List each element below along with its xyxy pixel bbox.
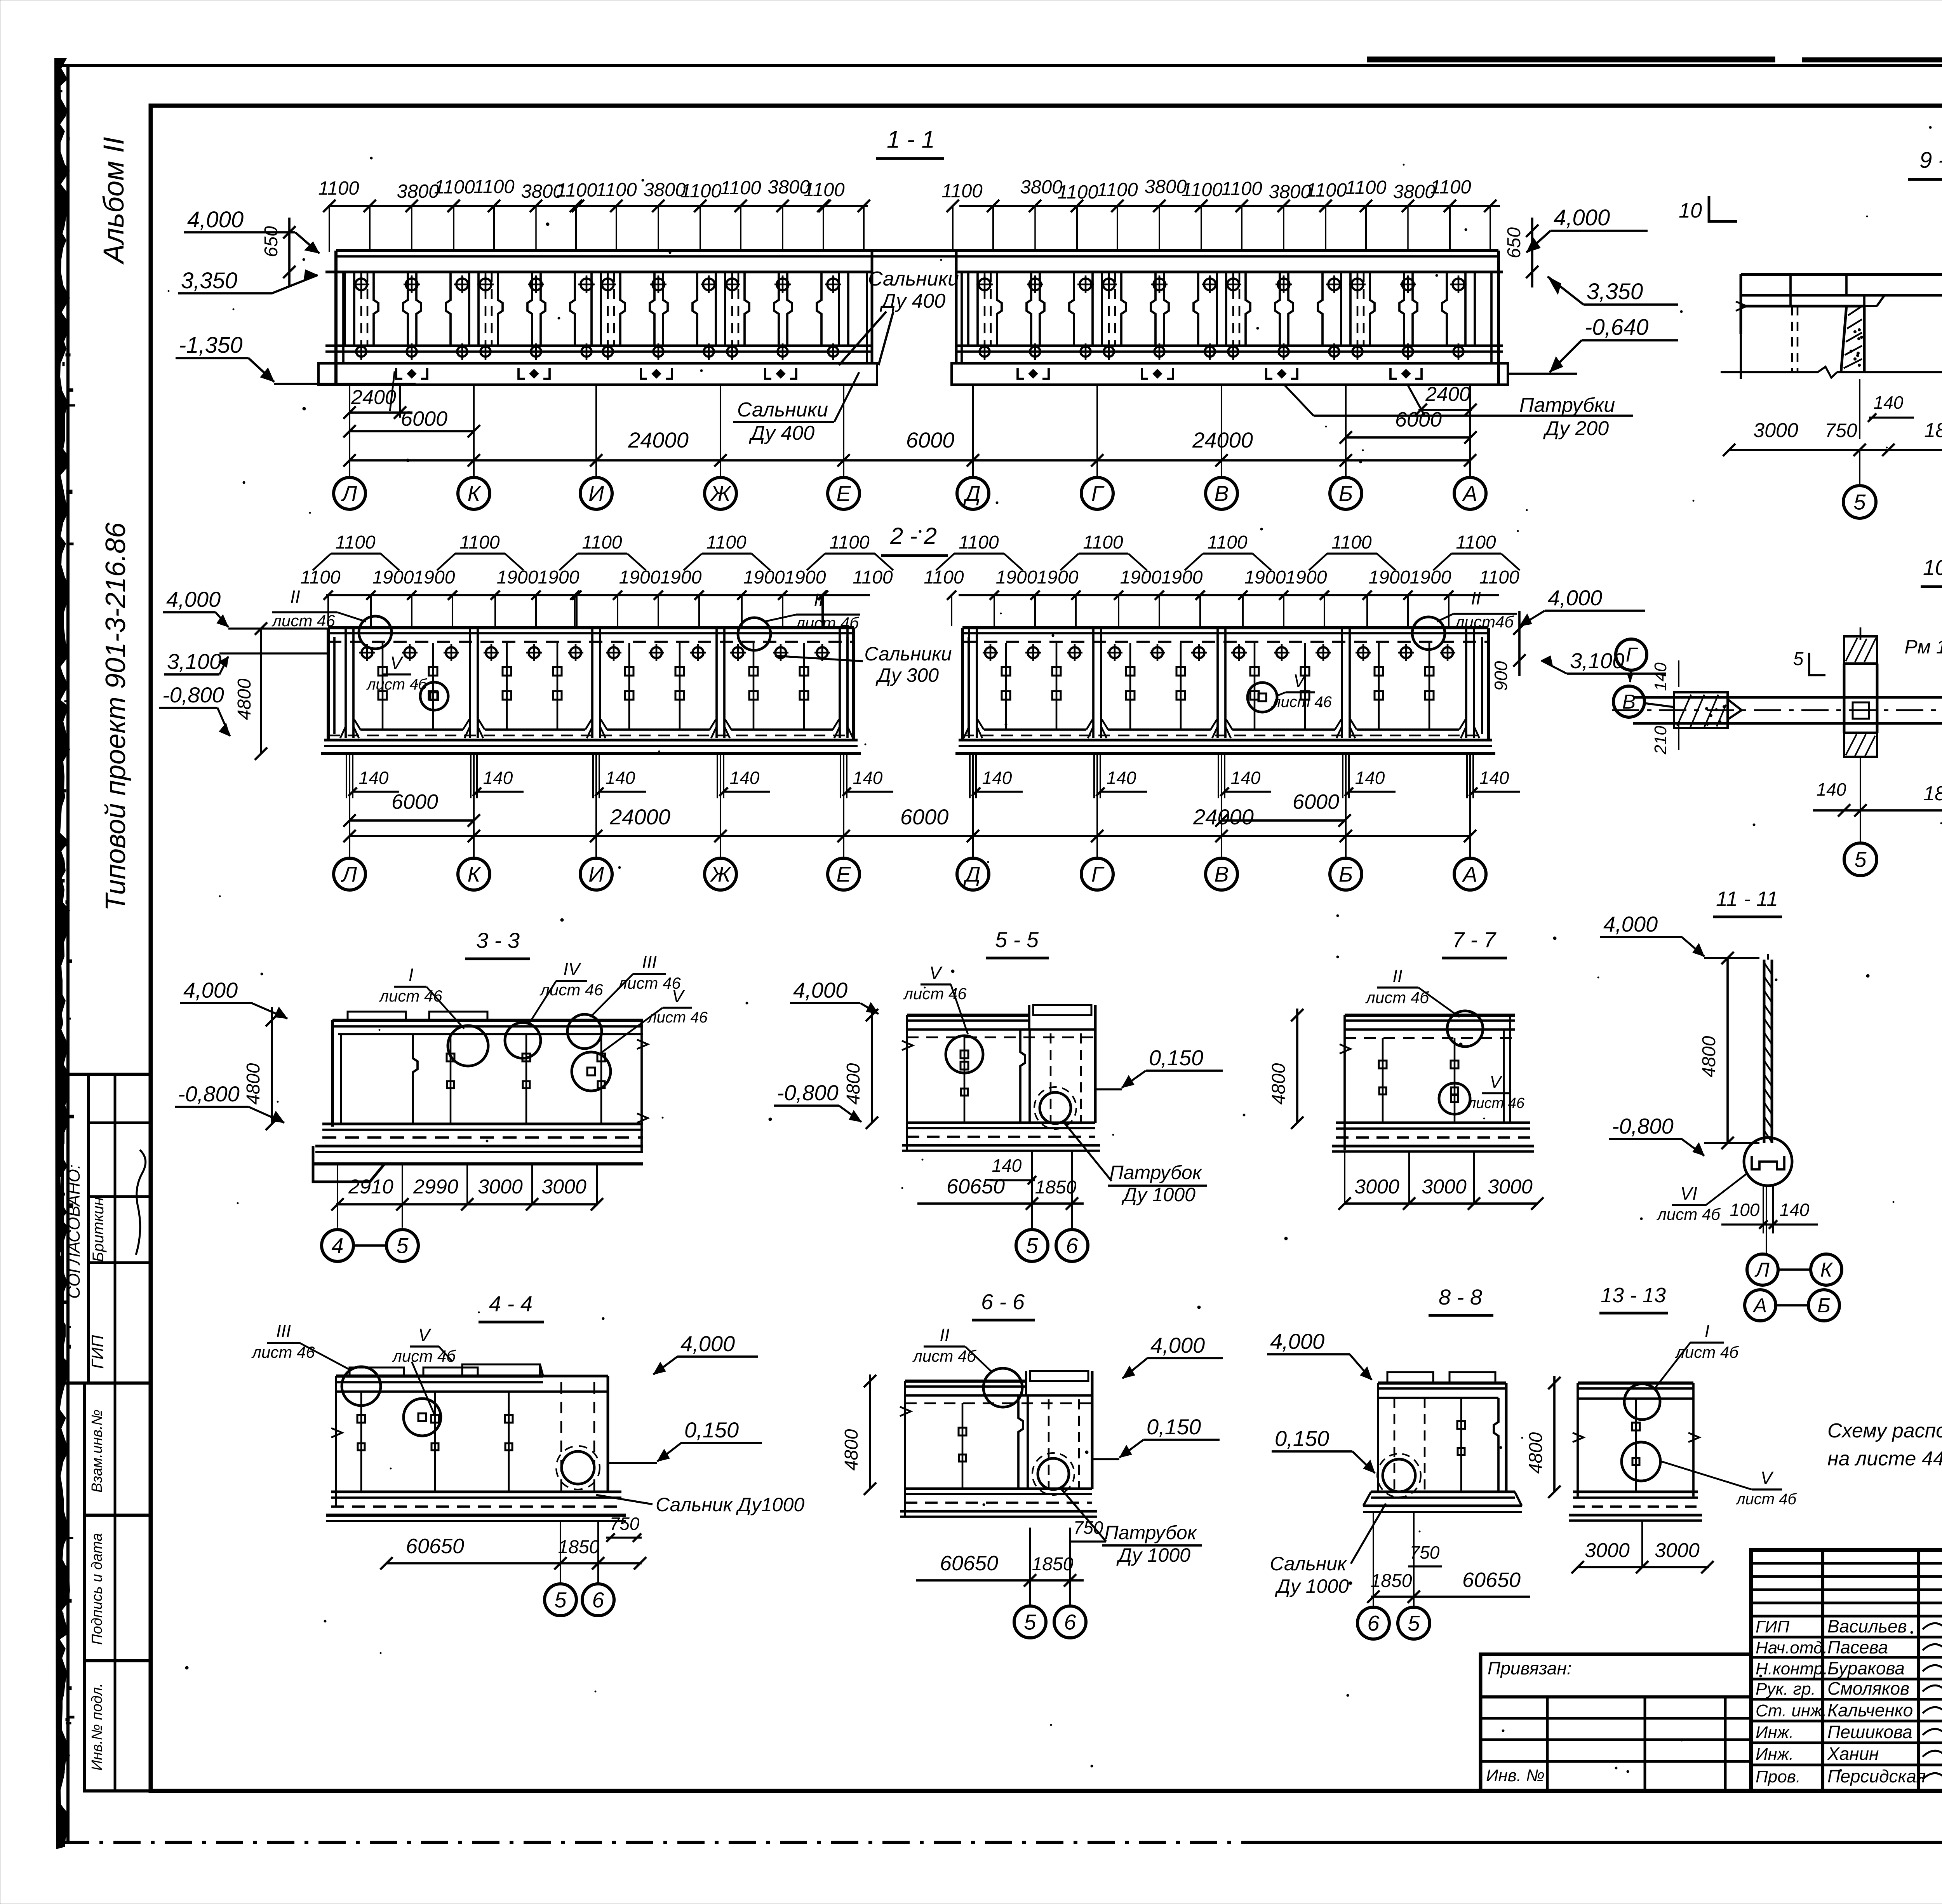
svg-text:1100: 1100 [1331,532,1372,553]
svg-text:1900: 1900 [372,567,414,588]
svg-text:I: I [409,965,414,985]
svg-text:ГИП: ГИП [1756,1617,1789,1636]
svg-text:140: 140 [730,768,760,788]
svg-text:4800: 4800 [841,1429,862,1470]
svg-text:Смоляков: Смоляков [1827,1678,1909,1698]
svg-text:Сальник Ду1000: Сальник Ду1000 [656,1494,804,1516]
signature squiggle [136,1150,146,1255]
svg-text:А: А [1462,862,1477,887]
svg-text:140: 140 [982,768,1012,788]
title block signature rows [1751,1636,1942,1639]
section 3-3 callout circles [448,1026,488,1066]
svg-text:5: 5 [396,1233,409,1258]
svg-text:Рук. гр.: Рук. гр. [1756,1679,1816,1698]
svg-text:Кальченко: Кальченко [1827,1700,1913,1720]
svg-text:1900: 1900 [785,567,826,588]
svg-text:1100: 1100 [829,532,870,553]
svg-text:Ду 400: Ду 400 [749,422,814,444]
outer border bottom line (dash-dot) [62,1841,1243,1844]
svg-text:1100: 1100 [1479,567,1519,588]
svg-text:1100: 1100 [1306,180,1347,201]
svg-text:1900: 1900 [1037,567,1079,588]
svg-text:-0,800: -0,800 [777,1080,839,1105]
svg-text:140: 140 [853,768,883,788]
smudge marks above top border [1367,57,1775,62]
svg-text:0,150: 0,150 [1147,1414,1201,1439]
svg-text:3000: 3000 [1753,419,1798,442]
svg-text:140: 140 [1651,662,1670,691]
section 10-10 center column [1844,636,1877,664]
svg-text:1100: 1100 [1430,177,1471,198]
section 7-7 right wall [1509,1015,1511,1123]
svg-text:10: 10 [1679,199,1702,222]
section 4-4 left break [335,1376,337,1506]
svg-text:V: V [929,963,943,983]
section 11-11 base detail circle [1744,1138,1792,1186]
section 2-2 140 dims at axes [346,754,347,798]
outer border top line [62,64,1942,67]
svg-text:1900: 1900 [1120,567,1162,588]
svg-text:Рм 1: Рм 1 [1904,636,1942,658]
svg-text:лист 4б: лист 4б [1365,988,1429,1007]
svg-text:К: К [467,862,481,887]
section 8-8 structure [1387,1372,1433,1383]
svg-text:140: 140 [1355,768,1385,788]
title block outer frame [1751,1550,1942,1791]
svg-text:Б: Б [1817,1294,1831,1317]
section 9-9 top slab [1741,273,1942,276]
svg-text:Пешикова: Пешикова [1827,1722,1912,1742]
section 2-2 top dimension line with ticks [326,594,870,596]
svg-text:V: V [418,1325,432,1345]
svg-text:5: 5 [1024,1610,1036,1634]
svg-text:13 - 13: 13 - 13 [1601,1284,1666,1307]
svg-text:Привязан:: Привязан: [1488,1658,1572,1678]
section 11-11 dim 4800 [1726,958,1729,1143]
section 13-13 structure [1578,1381,1693,1385]
section 1-1 gap end walls at axis E and D [871,251,874,363]
svg-text:Типовой проект 901-3-216.86: Типовой проект 901-3-216.86 [100,522,131,911]
svg-text:3800: 3800 [643,179,686,200]
section 1-1 left end wall [334,251,338,385]
section 4-4 droppers [360,1392,362,1491]
section 4-4 callout circles [342,1367,381,1406]
svg-text:1100: 1100 [300,567,341,588]
svg-text:1900: 1900 [414,567,455,588]
svg-text:Патрубок: Патрубок [1110,1162,1202,1183]
svg-text:Г: Г [1091,481,1105,506]
svg-text:Л: Л [341,862,357,887]
svg-text:1100: 1100 [959,532,999,553]
section 2-2 dim 900 right [1518,611,1521,676]
svg-text:210: 210 [1651,726,1670,755]
svg-text:Инв. №: Инв. № [1486,1766,1545,1785]
section 1-1 right end wall [1497,251,1500,385]
svg-text:лист 46: лист 46 [539,981,603,999]
section 8-8 floor and base [1377,1383,1379,1492]
svg-text:140: 140 [1780,1200,1810,1220]
svg-text:1100: 1100 [1097,179,1138,200]
svg-text:лист4б: лист4б [1454,613,1514,631]
svg-text:лист 46: лист 46 [903,984,967,1003]
svg-text:750: 750 [1825,420,1857,441]
svg-text:Ду 400: Ду 400 [880,290,945,312]
svg-text:100: 100 [1730,1200,1760,1220]
svg-text:лист 46: лист 46 [378,987,442,1005]
svg-text:1100: 1100 [473,176,514,197]
svg-text:3000: 3000 [1585,1539,1630,1562]
svg-text:Инж.: Инж. [1756,1723,1794,1742]
section 1-1 top dimension line [328,205,868,207]
svg-text:Нач.отд.: Нач.отд. [1756,1638,1827,1657]
section 9-9 axis circles 5 and 6 [1859,450,1860,485]
section 3-3 dim 4800 [271,1007,273,1124]
svg-text:140: 140 [606,768,635,788]
svg-text:V: V [672,986,686,1006]
svg-text:Патрубки: Патрубки [1519,394,1615,416]
svg-text:4,000: 4,000 [1554,205,1610,230]
svg-text:60650: 60650 [406,1535,464,1558]
section 2-2 axis extension lines [349,754,350,858]
svg-text:4,000: 4,000 [1603,912,1658,936]
svg-text:1900: 1900 [619,567,661,588]
svg-text:3000: 3000 [1655,1539,1700,1562]
svg-text:III: III [642,952,657,972]
svg-text:6 - 6: 6 - 6 [981,1289,1025,1314]
svg-text:В: В [1214,862,1229,887]
svg-text:5: 5 [554,1588,567,1612]
svg-text:ГИП: ГИП [88,1335,107,1369]
section 10-10 axis circles 5 and 6 [1844,843,1877,876]
section 1-1 bays block A [344,272,346,346]
svg-text:8 - 8: 8 - 8 [1439,1285,1482,1309]
svg-text:6000: 6000 [900,805,949,829]
svg-text:1850: 1850 [1032,1554,1074,1575]
svg-text:140: 140 [1817,779,1846,800]
svg-text:1900: 1900 [1286,567,1327,588]
section 5-5 V callout circle [946,1036,983,1073]
svg-text:Л: Л [1754,1259,1770,1281]
svg-text:Сальники: Сальники [868,268,959,290]
svg-text:4800: 4800 [243,1063,264,1104]
section 5-5 structure [907,1014,1029,1017]
section 4-4 right parapet and pipe [540,1364,543,1376]
svg-text:Альбом II: Альбом II [97,137,130,265]
svg-text:Ду 200: Ду 200 [1543,417,1609,440]
section 1-1 axis extension lines [349,385,350,477]
svg-text:Ханин: Ханин [1827,1744,1879,1764]
svg-text:СОГЛАСОВАНО:: СОГЛАСОВАНО: [64,1164,84,1299]
svg-text:Г: Г [1091,862,1105,887]
section 8-8 right wall with notch [1494,1398,1498,1492]
svg-text:И: И [588,862,604,887]
svg-text:Буракова: Буракова [1827,1658,1905,1678]
svg-text:24000: 24000 [1193,805,1254,829]
section 4-4 roof slab [336,1374,543,1378]
svg-text:4,000: 4,000 [1150,1333,1205,1357]
svg-text:1900: 1900 [1161,567,1203,588]
svg-text:6: 6 [592,1588,604,1612]
svg-text:5: 5 [1026,1233,1038,1258]
section 6-6 dim 4800 left [869,1374,871,1489]
section 10-10 hatched wall segment left [1674,692,1728,728]
svg-text:1100: 1100 [804,179,844,200]
svg-text:140: 140 [1107,768,1136,788]
svg-text:4800: 4800 [234,678,255,720]
svg-text:6000: 6000 [401,407,447,430]
svg-text:1100: 1100 [1083,532,1123,553]
svg-text:1100: 1100 [1207,532,1248,553]
svg-text:лист 46: лист 46 [1467,1095,1525,1111]
section 11-11 bottom dims 100 140 [1763,1186,1764,1233]
svg-text:Пасева: Пасева [1827,1637,1888,1657]
svg-text:1100: 1100 [1456,532,1496,553]
svg-text:1900: 1900 [538,567,579,588]
callout V list 46 inside 2-2 right block [1248,683,1277,712]
svg-text:Ду 1000: Ду 1000 [1275,1575,1349,1597]
svg-text:Патрубок: Патрубок [1105,1522,1197,1543]
svg-text:лист 4б: лист 4б [1736,1491,1797,1508]
svg-text:4,000: 4,000 [1548,585,1602,610]
section 11-11 wall (hatched thin wall) [1763,960,1766,1143]
svg-text:140: 140 [992,1155,1022,1176]
svg-text:Е: Е [836,481,851,506]
svg-text:Схему расположения панелей: Схему расположения панелей смотреть [1827,1420,1942,1442]
svg-text:1 - 1: 1 - 1 [887,126,935,153]
svg-text:1100: 1100 [706,532,747,553]
section 1-1 structure top chord [336,249,1498,252]
svg-text:III: III [276,1321,291,1341]
title block narrow revision rows [1751,1562,1942,1565]
svg-text:1900: 1900 [1244,567,1286,588]
section 9-9 dashed joint lines [1791,306,1793,371]
svg-text:Ду 1000: Ду 1000 [1121,1184,1195,1205]
svg-text:3800: 3800 [1020,177,1062,198]
left approval box block (SOGLASOVANO) [62,1074,151,1383]
section 3-3 right break line [640,1020,643,1151]
svg-text:Взам.инв.№: Взам.инв.№ [89,1409,105,1493]
svg-text:II: II [290,587,300,607]
svg-text:Л: Л [341,481,357,506]
svg-text:Е: Е [836,862,851,887]
svg-text:1900: 1900 [996,567,1037,588]
svg-text:V: V [1761,1468,1774,1488]
svg-text:I: I [1705,1321,1710,1341]
svg-text:К: К [1820,1259,1834,1281]
section 4-4 axis circles 5 and 6 [560,1521,561,1583]
section 13-13 floor [1573,1491,1698,1493]
svg-text:4800: 4800 [843,1063,864,1104]
svg-text:Васильев: Васильев [1827,1616,1907,1636]
svg-text:4,000: 4,000 [166,587,221,611]
svg-text:900: 900 [1491,661,1511,691]
section 7-7 structure [1345,1014,1515,1017]
svg-text:V: V [1293,671,1307,691]
svg-text:II: II [940,1325,950,1345]
svg-text:4,000: 4,000 [680,1331,735,1356]
section 6-6 structure [905,1380,1026,1383]
svg-text:Ст. инж.: Ст. инж. [1756,1701,1827,1720]
svg-text:II: II [814,590,824,610]
svg-text:1900: 1900 [497,567,538,588]
section 3-3 interior droppers and panel edges [413,1034,418,1123]
svg-text:750: 750 [610,1514,640,1534]
svg-text:-0,800: -0,800 [162,683,224,707]
svg-text:Б: Б [1339,481,1353,506]
section 2-2 structure block A [328,626,854,629]
section 6-6 axis circles 5 and 6 [1029,1528,1031,1605]
section 9-9 hatched legs [1841,306,1846,372]
svg-text:VI: VI [1680,1183,1697,1204]
svg-text:7 - 7: 7 - 7 [1452,927,1497,952]
svg-text:2400: 2400 [1425,383,1470,406]
scan speckles [919,530,921,533]
svg-text:II: II [1392,966,1403,986]
svg-text:Ж: Ж [709,862,732,887]
svg-text:6000: 6000 [1395,408,1442,431]
svg-text:5: 5 [1853,490,1866,514]
svg-text:1850: 1850 [1371,1571,1412,1591]
svg-text:1100: 1100 [1182,179,1222,200]
svg-text:3000: 3000 [478,1176,523,1198]
svg-text:Б: Б [1339,862,1353,887]
svg-text:5: 5 [1408,1611,1420,1636]
section 10-10 wall band plan [1633,696,1942,699]
svg-text:3,350: 3,350 [1587,279,1643,304]
svg-text:6000: 6000 [906,428,955,452]
section 7-7 V callout circle [1439,1083,1470,1114]
svg-text:лист 4б: лист 4б [366,676,427,693]
section 10-10 axis circles G and V [1616,639,1647,670]
section 3-3 left foundation step [313,1146,385,1182]
svg-text:4: 4 [331,1233,343,1258]
svg-text:1100: 1100 [318,178,359,199]
svg-text:1100: 1100 [720,178,761,199]
svg-text:4800: 4800 [1269,1063,1289,1104]
svg-text:5: 5 [1854,847,1867,872]
section 11-11 axis circle pairs [1747,1254,1778,1285]
svg-text:4800: 4800 [1699,1036,1719,1077]
section 13-13 center dropper [1635,1399,1637,1491]
svg-text:4,000: 4,000 [1270,1329,1324,1354]
svg-text:1100: 1100 [459,532,500,553]
svg-text:140: 140 [359,768,389,788]
svg-text:на листе 44.: на листе 44. [1827,1448,1942,1470]
svg-text:750: 750 [1074,1517,1103,1538]
section 1-1 dim 650 left [288,218,291,286]
section 1-1 axis circles [334,477,365,509]
svg-text:А: А [1462,481,1477,506]
svg-text:II: II [1471,588,1481,608]
section 1-1 bays block B [967,272,969,346]
svg-text:лист 4б: лист 4б [1656,1205,1721,1223]
svg-text:3800: 3800 [397,181,439,202]
svg-text:1100: 1100 [556,180,597,201]
svg-text:5: 5 [1793,649,1804,669]
outer border left line [66,65,70,1842]
svg-text:1100: 1100 [582,532,622,553]
section 1-1 dim 650 right [1531,218,1533,287]
section 3-3 axis circles 4 and 5 [322,1230,353,1261]
svg-text:10 - 10: 10 - 10 [1923,555,1942,580]
privyazan block [1481,1654,1751,1791]
svg-text:3800: 3800 [1144,176,1187,197]
svg-text:Инв.№ подл.: Инв.№ подл. [89,1683,105,1770]
svg-text:4,000: 4,000 [187,207,244,232]
section 7-7 dim 4800 [1296,1009,1298,1123]
svg-text:лист 4б: лист 4б [1674,1343,1739,1361]
svg-text:Пров.: Пров. [1756,1767,1801,1786]
svg-text:1850: 1850 [1035,1177,1077,1198]
svg-text:1100: 1100 [853,567,893,588]
svg-text:лист 46: лист 46 [617,974,681,992]
svg-text:3000: 3000 [1354,1176,1399,1198]
torn left edge of scanned sheet [54,58,70,1849]
svg-text:2990: 2990 [413,1176,458,1198]
svg-text:Сальники: Сальники [864,643,952,665]
svg-text:6: 6 [1066,1233,1078,1258]
svg-text:2 - 2: 2 - 2 [890,523,937,549]
title block left column verticals [1821,1550,1824,1791]
svg-text:3000: 3000 [541,1176,586,1198]
svg-text:-0,800: -0,800 [1612,1114,1674,1138]
section 8-8 axis circles 6 and 5 [1373,1512,1374,1606]
section 2-2 dim 4800 left [260,629,262,754]
svg-text:лист 46: лист 46 [1271,693,1332,711]
svg-text:И: И [588,481,604,506]
svg-text:60650: 60650 [1462,1568,1521,1592]
svg-text:Бриткин: Бриткин [90,1197,107,1262]
svg-text:5 - 5: 5 - 5 [995,927,1039,952]
section 4-4 floor slab [331,1491,621,1493]
svg-text:1100: 1100 [1221,178,1262,199]
section 5-5 axis circles 5 and 6 [1031,1151,1033,1228]
svg-text:3000: 3000 [1422,1176,1467,1198]
svg-text:6: 6 [1064,1610,1076,1634]
svg-text:24000: 24000 [609,805,670,829]
svg-text:-0,640: -0,640 [1585,315,1648,340]
svg-text:лист 4б: лист 4б [795,614,859,632]
svg-text:Г: Г [1626,644,1638,666]
svg-text:140: 140 [1479,768,1509,788]
svg-text:3,100: 3,100 [167,649,221,674]
section 9-9 left break mark [1736,301,1747,311]
svg-text:3,350: 3,350 [181,268,237,293]
svg-text:6000: 6000 [1293,790,1339,814]
section 1-1 main dimension line [350,459,1470,462]
svg-text:Ж: Ж [709,481,732,506]
svg-text:140: 140 [1874,392,1904,413]
section 3-3 left wall [331,1020,334,1127]
svg-text:9 - 9: 9 - 9 [1919,148,1942,173]
svg-text:Сальник: Сальник [1270,1553,1347,1575]
svg-text:лист 46: лист 46 [271,611,335,630]
svg-text:650: 650 [261,226,282,257]
svg-text:4800: 4800 [1526,1432,1546,1474]
svg-text:4,000: 4,000 [183,978,238,1002]
svg-text:24000: 24000 [1192,428,1253,452]
svg-text:1900: 1900 [1369,567,1410,588]
section 7-7 II callout circle [1447,1011,1483,1047]
section 6-6 II callout circle [983,1368,1022,1407]
svg-text:лист 4б: лист 4б [912,1347,976,1365]
svg-text:0,150: 0,150 [1275,1426,1329,1451]
svg-text:1100: 1100 [1345,177,1386,198]
svg-text:Д: Д [963,862,980,887]
svg-text:-0,800: -0,800 [178,1082,240,1106]
svg-text:Подпись и дата: Подпись и дата [89,1533,105,1644]
svg-text:V: V [390,653,404,673]
